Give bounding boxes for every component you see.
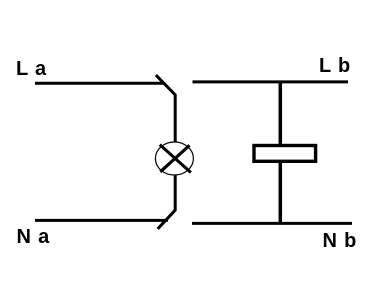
svg-text:L b: L b: [319, 55, 351, 77]
wire vertical branch lower (component to Nb): [279, 162, 283, 224]
wire top-right Lb rail: [193, 80, 349, 83]
lamp E1 cross stroke 2: [160, 145, 189, 172]
svg-text:N b: N b: [323, 230, 358, 252]
wire bottom-left from Na to switch: [35, 219, 168, 222]
svg-text:L a: L a: [16, 58, 47, 80]
wire bottom-right Nb rail: [192, 222, 352, 225]
svg-text:N a: N a: [17, 226, 51, 248]
wire vertical branch upper (Lb to component): [279, 82, 283, 146]
switch S1 blade (top) and wire down to lamp: [156, 75, 175, 143]
lamp E1 cross stroke 1: [160, 145, 191, 173]
component X1 box (load): [254, 146, 316, 162]
wire top-left from La to switch: [35, 82, 163, 85]
lamp E1 circle: [155, 142, 193, 175]
wire vertical lamp down and switch S2 blade (bottom): [158, 175, 176, 229]
